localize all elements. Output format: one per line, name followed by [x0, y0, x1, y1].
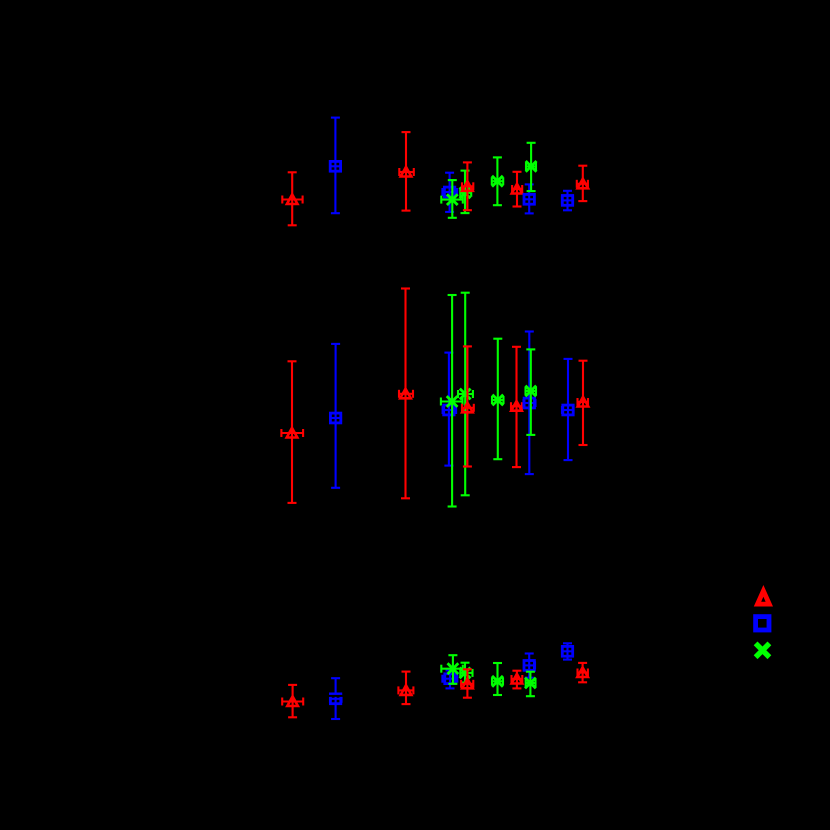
data point panel2 series-A point2: red open triangle marker with error bars [399, 289, 413, 499]
data point panel1 series-A point3: red open triangle marker with error bars [462, 162, 473, 210]
data point panel1 series-B point2: blue open square marker with error bars [442, 173, 457, 212]
data point panel3 series-A point1: red open triangle marker with error bars [282, 685, 303, 717]
data point panel2 series-C point3: green cross marker with error bars [492, 339, 504, 460]
data point panel3 series-C point1: green cross marker with error bars [441, 655, 463, 684]
data point panel2 series-B point4: blue open square marker with error bars [562, 359, 574, 460]
data point panel3 series-A point2: red open triangle marker with error bars [398, 672, 413, 705]
legend entry series-C: large green cross [756, 643, 770, 657]
data point panel3 series-C point4: green cross marker with error bars [525, 672, 536, 697]
legend entry series-B: large blue open square [756, 617, 769, 630]
data point panel3 series-A point5: red open triangle marker with error bars [577, 663, 588, 682]
data point panel2 series-B point3: blue open square marker with error bars [524, 332, 536, 475]
data point panel1 series-A point1: red open triangle marker with error bars [282, 172, 302, 225]
data point panel1 series-B point4: blue open square marker with error bars [562, 191, 573, 211]
data point panel3 series-B point1: blue open square marker with error bars [330, 678, 342, 719]
data point panel2 series-A point3: red open triangle marker with error bars [462, 346, 474, 466]
data point panel1 series-B point1: blue open square marker with error bars [330, 118, 341, 214]
data point panel2 series-C point4: green cross marker with error bars [525, 349, 536, 435]
data point panel3 series-B point4: blue open square marker with error bars [562, 643, 573, 659]
data point panel2 series-A point4: red open triangle marker with error bars [511, 347, 522, 467]
data point panel1 series-B point3: blue open square marker with error bars [524, 184, 535, 213]
data point panel2 series-C point1: green cross marker with error bars [441, 295, 463, 507]
data point panel1 series-C point2: green cross marker with error bars [460, 171, 472, 214]
data point panel3 series-B point2: blue open square marker with error bars [442, 671, 457, 689]
data point panel1 series-C point3: green cross marker with error bars [492, 157, 503, 205]
data point panel2 series-A point5: red open triangle marker with error bars [578, 361, 589, 445]
data point panel1 series-A point2: red open triangle marker with error bars [399, 132, 414, 211]
data point panel1 series-C point1: green cross marker with error bars [441, 180, 463, 218]
data point panel1 series-C point4: green cross marker with error bars [526, 143, 537, 191]
data point panel3 series-C point3: green cross marker with error bars [492, 663, 503, 695]
data point panel1 series-A point5: red open triangle marker with error bars [577, 166, 588, 201]
black overlay line crossing blue square (hidden series) [328, 695, 343, 697]
data point panel2 series-A point1: red open triangle marker with error bars [281, 361, 303, 503]
data point panel3 series-A point3: red open triangle marker with error bars [461, 669, 473, 697]
data point panel2 series-B point1: blue open square marker with error bars [330, 344, 341, 488]
data point panel2 series-B point2: blue open square marker with error bars [443, 353, 457, 466]
data point panel1 series-A point4: red open triangle marker with error bars [512, 172, 523, 207]
legend entry series-A: large red open triangle [758, 591, 770, 604]
data point panel2 series-C point2: green cross marker with error bars [458, 293, 473, 496]
data point panel3 series-A point4: red open triangle marker with error bars [512, 671, 523, 689]
data point panel3 series-B point3: blue open square marker with error bars [524, 654, 535, 678]
data point panel3 series-C point2: green cross marker with error bars [460, 663, 473, 683]
